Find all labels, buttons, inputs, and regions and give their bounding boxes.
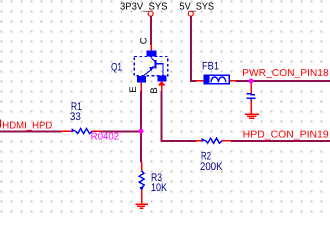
R1 pin 1 lead: [61, 130, 72, 132]
resistor R1: [61, 101, 120, 143]
FB1 pin 2 lead: [229, 80, 236, 82]
Q1 base pad: [157, 76, 166, 82]
Q1 base pin arrow: [158, 81, 165, 86]
svg-text:33: 33: [70, 111, 81, 123]
R3 zigzag: [139, 171, 144, 188]
FB1 coil arcs: [211, 77, 226, 82]
R2 pin 2 lead: [222, 140, 231, 142]
port stub at left edge: [0, 120, 1, 128]
wire capacitor to ground: [250, 100, 252, 114]
resistor R2: [196, 138, 231, 173]
FB1 pin 1 lead: [197, 80, 204, 82]
wire FB1 to PWR_CON_PIN18: [236, 80, 330, 82]
transistor Q1: [111, 37, 168, 93]
wire HDMI_HPD to R1: [0, 130, 62, 132]
svg-text:5V_SYS: 5V_SYS: [180, 1, 215, 12]
ground under R3: [136, 204, 149, 208]
FB1 body filled end band: [203, 74, 209, 84]
resistor R3: [139, 162, 167, 204]
svg-text:10K: 10K: [151, 182, 168, 194]
svg-text:PWR_CON_PIN18: PWR_CON_PIN18: [242, 68, 329, 79]
Q1 collector stroke: [151, 57, 155, 61]
wire 3P3V_SYS to Q1 collector: [150, 16, 152, 45]
Q1 dashed body outline: [134, 57, 168, 76]
wire R2 to HPD_CON_PIN19: [231, 140, 330, 142]
svg-text:FB1: FB1: [202, 61, 219, 73]
R2 pin 1 lead: [196, 140, 202, 142]
power symbol 3P3V_SYS: [120, 1, 168, 16]
svg-text:E: E: [128, 86, 139, 92]
Q1 emitter stroke: [144, 66, 155, 75]
R1 zigzag: [75, 129, 92, 134]
ground under capacitor: [245, 114, 259, 118]
junction HDMI_HPD node: [139, 129, 144, 134]
FB1 body outer box: [204, 75, 229, 84]
R3 pin 2 arrow: [139, 187, 143, 191]
svg-text:Q1: Q1: [111, 61, 122, 73]
Q1 emitter pin lead: [140, 83, 142, 92]
Q1 emitter arrow: [149, 66, 154, 71]
R2 zigzag: [205, 138, 222, 143]
wire junction to capacitor: [250, 81, 252, 93]
R3 pin 1 lead: [141, 162, 143, 171]
R1 pin 1 arrow: [72, 128, 76, 132]
svg-text:HPD_CON_PIN19: HPD_CON_PIN19: [243, 129, 329, 140]
power symbol 5V_SYS: [180, 1, 215, 16]
svg-text:C: C: [139, 37, 150, 44]
R2 pin 1 arrow: [202, 138, 206, 142]
svg-text:200K: 200K: [200, 161, 223, 173]
ferrite bead FB1: [197, 61, 237, 85]
R1 pin 2 lead: [92, 130, 101, 132]
wire 5V_SYS to FB1 pin 1: [191, 16, 197, 81]
Q1 base lead inside body: [155, 64, 163, 76]
svg-text:HDMI_HPD: HDMI_HPD: [2, 120, 52, 131]
R3 pin 2 lead: [141, 190, 143, 204]
Q1 base bar: [154, 60, 156, 69]
Q1 collector pin lead: [150, 44, 152, 51]
svg-text:R0402: R0402: [91, 132, 120, 143]
wire R1 to junction: [101, 130, 141, 132]
Q1 base pin lead: [161, 85, 163, 92]
wire Q1 emitter to junction to R3: [140, 91, 142, 163]
svg-text:3P3V_SYS: 3P3V_SYS: [120, 1, 168, 12]
wire Q1 base to R2: [162, 91, 197, 141]
Q1 collector pad: [147, 51, 157, 57]
svg-text:B: B: [149, 87, 160, 93]
Q1 emitter pad: [137, 76, 146, 82]
junction on PWR net: [249, 79, 254, 84]
capacitor: [246, 94, 255, 101]
